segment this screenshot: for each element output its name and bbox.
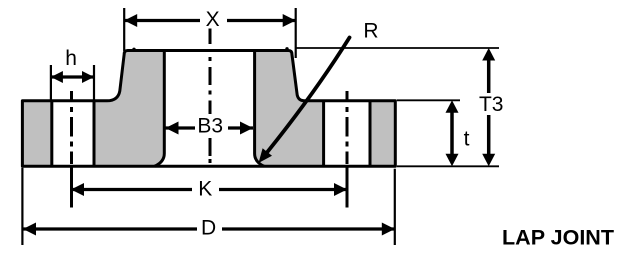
right bolt hole right edge: [369, 101, 372, 167]
R leader arrowhead: [259, 148, 273, 163]
left bolt hole (white band): [53, 102, 92, 166]
bore (white centre band with lap radius at bottom): [155, 49, 265, 166]
left bolt hole centerline (dash-dot): [70, 91, 73, 208]
R leader line: [267, 38, 349, 153]
left bolt hole left edge: [50, 101, 53, 167]
dimension h extension lines: [50, 65, 52, 101]
dimension X line and arrows: [124, 19, 200, 22]
hub top left corner nub: [132, 48, 135, 51]
T3 top reference line (hub top extended): [296, 47, 500, 49]
svg-text:T3: T3: [479, 93, 504, 116]
dimension K line and arrows: [71, 188, 192, 191]
svg-text:h: h: [65, 47, 77, 70]
dimension h line and arrows: [51, 75, 94, 78]
t top reference line (ring top extended): [397, 99, 460, 101]
flange body (gray cross-section silhouette): [22, 51, 395, 167]
svg-text:X: X: [206, 8, 220, 31]
svg-text:K: K: [198, 178, 212, 201]
dimension B3 arrows: [166, 126, 196, 129]
flange outline stroke: [22, 51, 395, 167]
svg-text:D: D: [201, 217, 216, 240]
dimension t line and arrows: [450, 110, 454, 156]
bore right edge with radius R: [255, 51, 264, 167]
right bolt hole centerline (dash-dot): [346, 91, 349, 208]
right bolt hole left edge: [322, 101, 325, 167]
dimension T3 line and arrows: [487, 56, 491, 93]
svg-text:B3: B3: [197, 115, 223, 138]
dimension D extension lines: [21, 168, 23, 245]
svg-text:t: t: [464, 128, 470, 151]
dimension X extension lines: [123, 8, 125, 51]
svg-text:R: R: [363, 20, 378, 43]
dimension D line and arrows: [23, 227, 197, 230]
right bolt hole (white band): [325, 102, 369, 166]
bore left edge with radius: [155, 51, 165, 167]
left bolt hole right edge: [93, 101, 96, 167]
bore centerline (dash-dot): [209, 29, 212, 164]
hub top right corner nub: [285, 47, 288, 50]
svg-text:LAP JOINT: LAP JOINT: [502, 226, 614, 250]
bottom reference line (flange bottom extended): [397, 165, 499, 167]
